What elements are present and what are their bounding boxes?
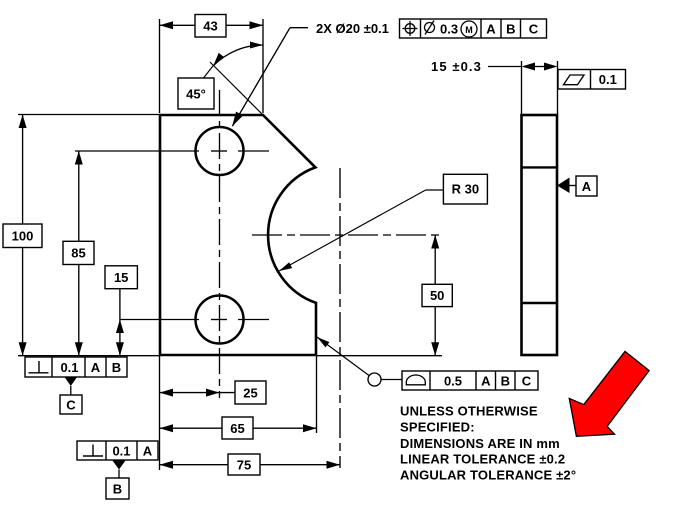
svg-text:UNLESS OTHERWISE: UNLESS OTHERWISE: [400, 404, 538, 419]
svg-text:A: A: [143, 443, 153, 458]
svg-text:M: M: [465, 25, 473, 35]
svg-text:2X Ø20 ±0.1: 2X Ø20 ±0.1: [316, 21, 389, 36]
svg-text:DIMENSIONS ARE IN mm: DIMENSIONS ARE IN mm: [400, 436, 560, 451]
hole upper: [196, 127, 244, 175]
dim 15: [105, 266, 137, 356]
dim 85: [63, 151, 94, 356]
leader 2X dia 20: [232, 21, 389, 127]
svg-text:A: A: [91, 360, 101, 375]
svg-text:25: 25: [243, 385, 257, 400]
red arrow: [569, 351, 649, 436]
svg-text:R 30: R 30: [452, 182, 479, 197]
svg-text:75: 75: [237, 457, 251, 472]
ext left edge below part: [159, 356, 161, 470]
ext top-left horizontal (100 dim): [18, 114, 160, 116]
perpendicularity frame (0.1 A): [77, 441, 158, 460]
svg-text:B: B: [506, 21, 515, 36]
arc centerline vertical / 75 extension: [339, 168, 341, 468]
arc arrow right: [250, 42, 263, 49]
flatness feature control frame: [558, 70, 626, 90]
svg-text:0.1: 0.1: [599, 72, 617, 87]
side view outline: [522, 115, 558, 355]
svg-text:B: B: [113, 481, 122, 496]
svg-text:100: 100: [12, 229, 34, 244]
ext side view right: [557, 61, 559, 114]
dim 100: [3, 115, 42, 356]
leader R 30: [279, 174, 487, 271]
svg-text:50: 50: [430, 288, 444, 303]
dim 50: [422, 235, 452, 356]
dim 65: [160, 417, 317, 439]
leader from 45 box to arc end: [204, 65, 214, 78]
hole lower: [196, 296, 244, 344]
svg-text:0.5: 0.5: [444, 373, 462, 388]
ext bottom-left horizontal: [18, 355, 160, 357]
svg-text:A: A: [582, 179, 592, 194]
flatness symbol parallelogram: [564, 75, 585, 85]
dia symbol in frame: [425, 21, 435, 35]
ext 43 left vertical: [159, 19, 161, 113]
svg-text:B: B: [501, 373, 510, 388]
svg-text:43: 43: [203, 18, 217, 33]
svg-text:0.3: 0.3: [440, 21, 458, 36]
ext 43 right vertical: [262, 19, 264, 113]
notes text: [400, 404, 576, 483]
svg-text:A: A: [481, 373, 491, 388]
svg-text:C: C: [529, 21, 539, 36]
arc centerline horizontal: [252, 234, 440, 236]
side view edge line lower: [522, 302, 558, 304]
svg-text:LINEAR TOLERANCE ±0.2: LINEAR TOLERANCE ±0.2: [400, 452, 565, 467]
centerline vertical through holes: [219, 90, 221, 398]
part front view outline: [160, 115, 316, 355]
svg-text:SPECIFIED:: SPECIFIED:: [400, 420, 475, 435]
ext side view left: [521, 61, 523, 114]
arc arrow left: [213, 53, 224, 66]
dim 15 plus/minus 0.3: [431, 59, 558, 74]
perp symbol: [29, 361, 49, 373]
profile feature control frame: [402, 371, 538, 390]
perp symbol: [83, 445, 103, 457]
profile of surface symbol: [406, 375, 425, 385]
svg-text:0.1: 0.1: [112, 443, 130, 458]
position feature control frame: [400, 19, 547, 38]
ext bottom-right horizontal (50 dim): [317, 355, 442, 357]
svg-text:15: 15: [114, 270, 128, 285]
angular dim arc: [214, 45, 264, 66]
centerline horizontal lower hole: [120, 319, 269, 321]
dim 43: [160, 15, 264, 38]
dim 75: [160, 454, 341, 475]
svg-text:A: A: [486, 21, 496, 36]
position symbol: [403, 21, 418, 36]
svg-text:65: 65: [230, 421, 244, 436]
svg-text:15 ±0.3: 15 ±0.3: [431, 59, 482, 74]
label 45 deg: [178, 78, 214, 109]
profile leader: [317, 337, 402, 386]
centerline horizontal upper hole: [75, 150, 269, 152]
angular dim 45 deg: chamfer extension line: [210, 62, 263, 115]
svg-text:C: C: [522, 373, 532, 388]
datum B: [106, 461, 129, 500]
svg-text:45°: 45°: [186, 86, 206, 101]
M circle modifier: [461, 21, 477, 37]
ext 65 vertical: [316, 356, 318, 433]
svg-text:B: B: [112, 360, 121, 375]
datum C: [60, 377, 82, 414]
svg-text:85: 85: [71, 246, 85, 261]
perpendicularity frame bottom-left (0.1 A B): [25, 357, 127, 377]
dim 25: [160, 381, 267, 404]
svg-text:ANGULAR TOLERANCE ±2°: ANGULAR TOLERANCE ±2°: [400, 468, 576, 483]
extension lines: [18, 19, 558, 470]
side view edge line upper: [522, 166, 558, 168]
svg-text:C: C: [66, 397, 76, 412]
datum A on side view: [557, 176, 597, 196]
svg-text:0.1: 0.1: [60, 360, 78, 375]
